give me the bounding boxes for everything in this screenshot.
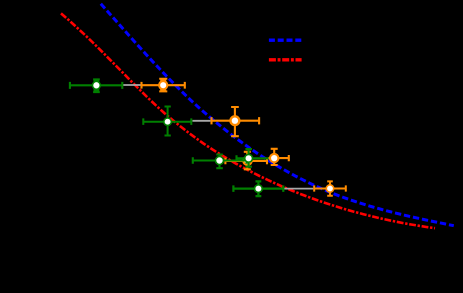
- gray connector pair5: [284, 188, 313, 190]
- theory curve blue dashed: [101, 4, 454, 226]
- data point orange P5: [314, 181, 346, 195]
- data point green P5: [233, 181, 283, 196]
- gray connector pair2: [192, 120, 210, 122]
- data point orange P3 (mostly hidden): [225, 152, 267, 170]
- data point orange P2: [212, 107, 260, 136]
- legend sample red dash-dot: [269, 58, 302, 61]
- legend sample blue dashed: [269, 39, 302, 42]
- gray connector pair1: [123, 84, 141, 86]
- data point orange P1: [142, 79, 185, 92]
- data point green B pair4: [237, 149, 273, 167]
- data point green P1: [70, 79, 122, 92]
- data point green A pair3: [193, 155, 247, 169]
- theory curve red dash-dot: [61, 13, 435, 228]
- data point green P2: [143, 107, 191, 136]
- data point orange P4: [269, 149, 289, 165]
